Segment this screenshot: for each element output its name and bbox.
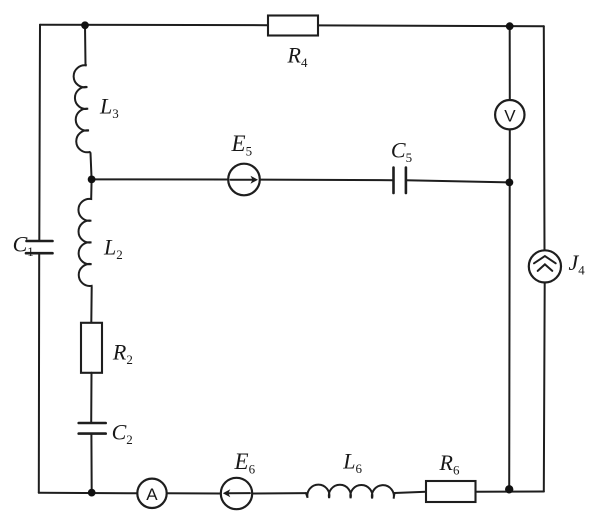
- current source J4: [529, 250, 561, 282]
- node middle left: [88, 176, 96, 184]
- svg-text:C2: C2: [112, 420, 133, 448]
- svg-text:E5: E5: [231, 131, 253, 159]
- svg-text:R2: R2: [112, 340, 133, 368]
- inductor L6: [306, 485, 395, 499]
- capacitor C2: [79, 423, 106, 434]
- svg-text:V: V: [504, 107, 516, 126]
- resistor R4: [268, 16, 318, 36]
- wire left side lower: [38, 253, 40, 493]
- voltmeter V: [495, 100, 524, 129]
- wire bottom segment 3: [252, 492, 306, 494]
- wire R2 to C2: [90, 373, 92, 423]
- svg-text:J4: J4: [569, 250, 586, 278]
- wire left side: [38, 25, 41, 241]
- ammeter A: [137, 479, 166, 508]
- wire right outer upper: [543, 26, 546, 250]
- source E6: [221, 478, 252, 509]
- wire C2 to bottom: [90, 434, 92, 493]
- capacitor C1: [26, 241, 53, 253]
- wire right outer lower: [543, 283, 546, 492]
- wire bottom segment 1: [39, 492, 138, 495]
- svg-text:L6: L6: [342, 448, 362, 476]
- capacitor C5: [394, 168, 406, 194]
- wire middle segment 1: [92, 178, 229, 180]
- svg-text:R4: R4: [287, 43, 308, 71]
- svg-text:L3: L3: [99, 94, 119, 122]
- resistor R6: [426, 481, 476, 502]
- wire bottom segment 5: [476, 491, 544, 493]
- wire bottom segment 4: [395, 492, 427, 493]
- node middle right: [506, 179, 514, 187]
- svg-text:E6: E6: [234, 449, 256, 477]
- resistor R2: [81, 323, 102, 373]
- wire top left segment: [40, 24, 268, 27]
- source E5: [228, 164, 260, 196]
- node bottom left: [88, 489, 96, 497]
- inductor L2: [78, 179, 91, 322]
- svg-text:R6: R6: [439, 450, 460, 478]
- wire middle segment 3: [406, 180, 510, 182]
- node top right: [506, 22, 514, 30]
- svg-text:L2: L2: [103, 235, 123, 263]
- wire middle segment 2: [260, 179, 394, 182]
- inductor L3: [74, 26, 92, 180]
- svg-text:C1: C1: [13, 232, 34, 260]
- wire inner right upper: [509, 26, 511, 100]
- wire top right segment: [318, 24, 544, 27]
- wire inner right lower: [508, 129, 511, 489]
- svg-text:C5: C5: [391, 137, 412, 165]
- node bottom right: [505, 485, 513, 493]
- node top left: [81, 21, 89, 29]
- wire bottom segment 2: [167, 492, 221, 494]
- svg-text:A: A: [146, 485, 158, 504]
